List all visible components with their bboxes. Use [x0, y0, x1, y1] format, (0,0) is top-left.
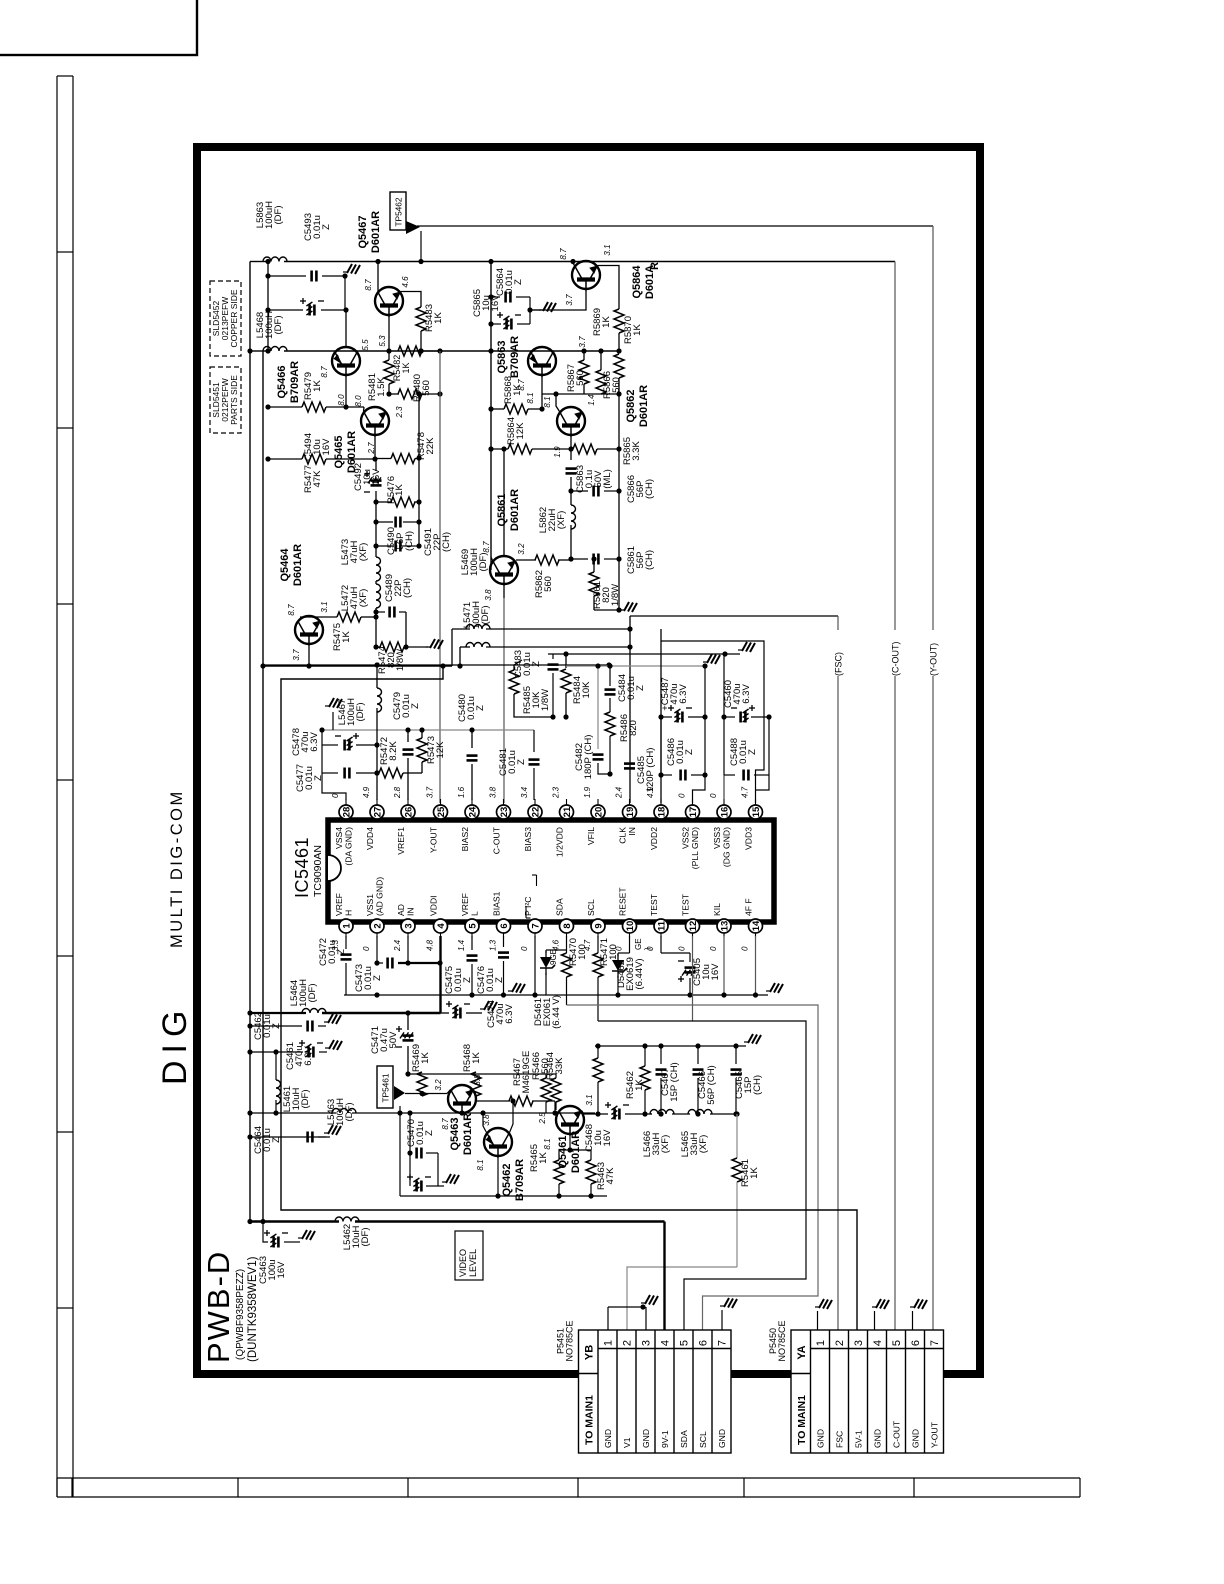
svg-text:GND: GND — [603, 1429, 613, 1448]
capacitor C5475 — [471, 936, 473, 950]
wire Q5864 emitter to R5870 — [598, 266, 620, 310]
capacitor C5472 — [345, 936, 347, 949]
wire rail2 with L5468 — [250, 350, 266, 352]
svg-text:D601AR: D601AR — [570, 1131, 582, 1173]
capacitor C5405 — [689, 953, 691, 962]
ground YB1/3 — [645, 1295, 650, 1304]
svg-text:1/2VDD: 1/2VDD — [555, 827, 565, 857]
svg-text:Z: Z — [424, 1130, 435, 1136]
svg-text:4: 4 — [436, 923, 447, 929]
svg-text:8.1: 8.1 — [526, 392, 535, 403]
resistor R5861 — [593, 559, 595, 572]
wire rail y1013b — [322, 1012, 441, 1014]
wire Q5861 collector — [503, 449, 505, 556]
wire pin14 down — [755, 936, 757, 995]
svg-text:(FSC): (FSC) — [834, 652, 844, 676]
svg-text:TP5462: TP5462 — [394, 197, 404, 226]
inductor L5467 — [376, 665, 378, 688]
svg-text:18: 18 — [656, 807, 667, 818]
resistor R5866 — [600, 351, 602, 370]
svg-text:L: L — [470, 911, 480, 916]
svg-text:5.3: 5.3 — [378, 335, 387, 347]
wire busC x491 — [490, 262, 492, 571]
wire rail y665 — [263, 664, 609, 666]
svg-text:50V: 50V — [388, 1031, 399, 1049]
capacitor C5483 — [552, 654, 554, 659]
svg-text:120P (CH): 120P (CH) — [645, 748, 656, 793]
svg-text:560: 560 — [543, 576, 554, 592]
svg-text:GE: GE — [634, 938, 643, 950]
svg-text:1.4: 1.4 — [457, 939, 466, 951]
wire rail 9V thick b — [355, 1220, 665, 1222]
wire YB pin stubs — [607, 1307, 609, 1330]
wire Q5467 collector — [377, 262, 379, 293]
svg-text:16V: 16V — [710, 963, 721, 981]
svg-text:5: 5 — [891, 1340, 903, 1346]
resistor R5471 — [597, 936, 599, 953]
resistor R5485 — [513, 665, 515, 670]
capacitor C5494 — [268, 309, 303, 311]
svg-text:560: 560 — [421, 380, 432, 396]
svg-text:24: 24 — [467, 806, 478, 817]
svg-text:(C-OUT): (C-OUT) — [891, 642, 901, 677]
wire Y-OUT inner line — [439, 351, 441, 803]
wire C5486/87 loop — [660, 717, 662, 775]
capacitor C5474 — [441, 1012, 450, 1014]
svg-text:C-OUT: C-OUT — [892, 1420, 902, 1448]
svg-text:1K: 1K — [471, 1052, 482, 1064]
svg-text:4.6: 4.6 — [401, 276, 410, 288]
svg-text:7: 7 — [717, 1340, 729, 1346]
wire node 8.0 — [346, 406, 364, 408]
capacitor C5486 — [661, 774, 672, 776]
svg-text:8.7: 8.7 — [482, 541, 491, 553]
svg-text:SDA: SDA — [679, 1430, 689, 1448]
ground C5865 — [543, 302, 548, 311]
svg-text:560: 560 — [540, 1058, 551, 1074]
svg-text:8.7: 8.7 — [364, 279, 373, 291]
svg-text:1K: 1K — [601, 316, 612, 328]
resistor R5486 — [605, 712, 615, 736]
inductor L5468 — [263, 347, 287, 352]
svg-text:(ML): (ML) — [602, 469, 613, 489]
svg-text:PWB-D: PWB-D — [201, 1250, 236, 1363]
svg-text:VDD3: VDD3 — [744, 827, 754, 850]
svg-text:(DF): (DF) — [273, 316, 284, 335]
wire CLK riser — [629, 616, 631, 803]
ground at C5493 — [347, 264, 352, 273]
capacitor C5481 — [533, 730, 535, 752]
wire V1 to YB2 — [627, 1267, 737, 1330]
dashed box SLD5451 PARTS SIDE — [210, 367, 241, 433]
ground C5463 — [302, 1230, 307, 1239]
svg-text:1K: 1K — [512, 384, 523, 396]
svg-text:(XF): (XF) — [698, 1135, 709, 1153]
net label (C-OUT) — [889, 630, 901, 676]
svg-text:VSS2: VSS2 — [681, 827, 691, 849]
svg-text:1K: 1K — [749, 1167, 760, 1179]
wire C5864/C5865 join gnd — [529, 297, 531, 324]
svg-text:Z: Z — [747, 749, 758, 755]
capacitor C5479 — [407, 730, 409, 742]
svg-text:4.9: 4.9 — [362, 786, 371, 798]
svg-text:0: 0 — [362, 946, 371, 951]
resistor R5869 — [614, 354, 624, 378]
capacitor C5489 — [376, 611, 385, 613]
svg-text:GND: GND — [873, 1429, 883, 1448]
capacitor C5470 — [410, 1152, 412, 1154]
svg-text:(CH): (CH) — [441, 532, 452, 552]
svg-text:IN: IN — [406, 907, 416, 916]
capacitor C5480 — [471, 730, 473, 748]
svg-text:Z: Z — [336, 949, 347, 955]
svg-text:SCL: SCL — [698, 1431, 708, 1448]
svg-text:C-OUT: C-OUT — [492, 826, 502, 854]
svg-text:Z: Z — [462, 977, 473, 983]
svg-text:(XF): (XF) — [660, 1135, 671, 1153]
ground rail995 mid — [512, 983, 517, 992]
capacitor C5473 — [377, 962, 383, 964]
wire top rail with L5863 — [250, 261, 266, 263]
svg-text:VREF1: VREF1 — [396, 827, 406, 855]
svg-text:GND: GND — [717, 1429, 727, 1448]
svg-text:(DA GND): (DA GND) — [344, 827, 354, 866]
resistor R5867 — [583, 351, 585, 360]
wire Q5862 collector — [556, 394, 560, 412]
wire Q5464 collector R5475 — [300, 616, 337, 618]
wire Q5467 emitter to R5483 — [401, 292, 422, 308]
wire Q5864 collector — [572, 262, 575, 266]
ground YB7 — [724, 1298, 729, 1307]
svg-text:28: 28 — [341, 807, 352, 818]
svg-text:0: 0 — [709, 946, 718, 951]
wire Q5465 stem — [374, 437, 376, 459]
svg-text:8.1: 8.1 — [543, 1138, 552, 1149]
svg-text:1K: 1K — [401, 362, 411, 373]
svg-text:(XF): (XF) — [358, 543, 369, 561]
svg-text:VSS3: VSS3 — [712, 827, 722, 849]
resistor R5469 — [408, 1073, 556, 1075]
left margin strip with fold marks — [56, 76, 58, 1497]
svg-text:TC9090AN: TC9090AN — [312, 845, 324, 897]
svg-text:4.7: 4.7 — [741, 786, 750, 798]
svg-text:(DF): (DF) — [480, 606, 491, 625]
svg-text:Z: Z — [684, 749, 695, 755]
svg-text:VDDI: VDDI — [429, 895, 439, 916]
svg-text:16V: 16V — [371, 468, 382, 486]
ground after R5474 — [430, 639, 435, 648]
svg-text:14: 14 — [751, 920, 762, 931]
svg-text:1: 1 — [341, 923, 352, 929]
capacitor C5462 — [250, 1025, 302, 1027]
svg-text:6.3V: 6.3V — [303, 1046, 314, 1066]
svg-text:8.2K: 8.2K — [388, 741, 399, 761]
wire rail y1013 thick — [250, 1012, 306, 1014]
svg-text:1.4: 1.4 — [587, 394, 596, 406]
svg-text:NO785CE: NO785CE — [565, 1320, 575, 1361]
svg-text:2.4: 2.4 — [615, 786, 624, 799]
wire row y394 — [542, 393, 619, 395]
node rail2-busA — [247, 348, 252, 353]
wire left bus A — [249, 262, 251, 1222]
svg-text:19: 19 — [625, 807, 636, 818]
svg-text:D601AR: D601AR — [292, 544, 304, 586]
svg-text:(CH): (CH) — [644, 550, 655, 570]
svg-text:(CH): (CH) — [404, 531, 415, 551]
resistor R5865 — [573, 444, 597, 454]
capacitor C5491 — [376, 545, 393, 547]
wire Q5464 stem — [308, 646, 310, 666]
svg-text:180P (CH): 180P (CH) — [583, 735, 594, 780]
svg-text:3.8: 3.8 — [484, 589, 493, 601]
capacitor C5467 — [660, 1046, 662, 1064]
svg-text:(XF): (XF) — [358, 589, 369, 607]
svg-text:8.1: 8.1 — [543, 396, 552, 407]
svg-text:2.5: 2.5 — [538, 1112, 547, 1125]
svg-text:4: 4 — [872, 1340, 884, 1346]
svg-text:2.8: 2.8 — [393, 786, 402, 799]
svg-text:3.7: 3.7 — [426, 786, 435, 798]
svg-text:IC5461: IC5461 — [292, 837, 312, 898]
wire rail 9V thick — [250, 1220, 339, 1222]
svg-text:16V: 16V — [602, 1129, 613, 1147]
svg-text:(6.44V): (6.44V) — [634, 958, 645, 989]
ground C5462 — [328, 1014, 333, 1023]
svg-text:1.5K: 1.5K — [376, 377, 387, 397]
transistor Q5861 — [490, 556, 518, 586]
svg-text:1K: 1K — [433, 312, 444, 324]
svg-text:47K: 47K — [312, 470, 323, 488]
resistor R5467 — [476, 1100, 510, 1102]
svg-text:3.1: 3.1 — [603, 244, 612, 255]
svg-text:VREF: VREF — [460, 893, 470, 916]
svg-text:Q5467: Q5467 — [357, 215, 369, 248]
svg-text:YB: YB — [584, 1345, 596, 1360]
label P I2C box — [525, 906, 527, 918]
wire SCL staircase — [598, 1021, 806, 1330]
svg-text:7: 7 — [929, 1340, 941, 1346]
svg-text:D601AR: D601AR — [638, 385, 650, 427]
wire rail y995 — [344, 994, 768, 996]
capacitor C5465 — [735, 1046, 737, 1064]
capacitor C5466 — [697, 1046, 699, 1064]
capacitor C5492 — [375, 459, 377, 471]
svg-text:TO MAIN1: TO MAIN1 — [584, 1395, 596, 1445]
svg-text:1/8W: 1/8W — [395, 649, 406, 671]
capacitor C5464 — [280, 1136, 302, 1138]
svg-text:8.0: 8.0 — [354, 395, 363, 407]
svg-text:V1: V1 — [622, 1437, 632, 1448]
page corner box (top-left) — [0, 0, 197, 55]
wire Q5462 collector — [483, 1113, 487, 1133]
capacitor C5461 — [250, 1051, 303, 1053]
svg-text:17: 17 — [688, 807, 699, 818]
svg-text:(XF): (XF) — [556, 511, 567, 529]
svg-text:22: 22 — [530, 807, 541, 818]
capacitor C5866 — [571, 490, 588, 492]
svg-text:2.3: 2.3 — [395, 406, 404, 419]
svg-text:3: 3 — [403, 923, 414, 928]
wire pin7 down — [534, 936, 536, 995]
resistor R5477 — [268, 458, 302, 460]
ground C5461 — [329, 1040, 334, 1049]
svg-text:Q5463: Q5463 — [449, 1117, 461, 1150]
svg-text:560: 560 — [611, 377, 622, 393]
svg-text:0: 0 — [741, 946, 750, 951]
capacitor C5863 — [570, 449, 572, 460]
resistor R5461 — [736, 1114, 738, 1158]
capacitor C5864 — [491, 296, 500, 298]
svg-text:Z: Z — [321, 224, 332, 230]
resistor R5483 — [416, 307, 426, 331]
svg-text:3.1: 3.1 — [320, 601, 329, 612]
svg-text:5.5: 5.5 — [361, 339, 370, 351]
svg-text:(DF): (DF) — [300, 1090, 311, 1109]
resistor R5465 — [558, 1150, 560, 1160]
wire R5478 top — [418, 394, 420, 546]
svg-text:Q5464: Q5464 — [279, 548, 291, 582]
svg-text:Q5861: Q5861 — [496, 493, 508, 526]
wire Q5463 left leg — [405, 1093, 447, 1095]
svg-text:560: 560 — [575, 370, 586, 386]
inductor L5473 — [376, 557, 381, 581]
svg-text:8.0: 8.0 — [337, 394, 346, 406]
net label (Y-OUT) — [927, 630, 939, 676]
IC bottom pins 1-14 — [339, 919, 353, 933]
svg-text:Y-OUT: Y-OUT — [429, 826, 439, 853]
svg-text:1K: 1K — [538, 1152, 549, 1164]
svg-text:1.6: 1.6 — [457, 786, 466, 798]
svg-text:3.7: 3.7 — [578, 336, 587, 348]
svg-text:Z: Z — [410, 703, 421, 709]
svg-text:16V: 16V — [490, 294, 501, 312]
svg-text:(DF): (DF) — [344, 1103, 355, 1122]
capacitor C5460 — [724, 716, 735, 718]
svg-text:B709AR: B709AR — [289, 361, 301, 403]
boxed label VIDEO LEVEL — [455, 1231, 483, 1280]
svg-text:(6.44 V): (6.44 V) — [551, 995, 562, 1029]
svg-text:7: 7 — [530, 923, 541, 928]
connector P5451 YB — [579, 1330, 732, 1453]
wire VDD3 feed — [661, 641, 764, 803]
resistor R5862 — [516, 559, 536, 561]
svg-text:8.1: 8.1 — [476, 1159, 485, 1170]
ground rail995 end — [770, 983, 775, 992]
wire pin12 down — [692, 936, 694, 1021]
inductor L5469 — [466, 625, 490, 629]
svg-text:23: 23 — [499, 807, 510, 818]
wire pin4 thick down — [439, 936, 441, 1013]
svg-text:VSS4: VSS4 — [334, 827, 344, 849]
wire C5488/60 loop — [723, 654, 725, 775]
wire pin18 up — [660, 629, 662, 641]
capacitor C5477 — [322, 772, 338, 774]
inductor L5862 — [571, 505, 576, 529]
ground C5464 — [328, 1125, 333, 1134]
inductor L5463 — [332, 1109, 356, 1114]
wire YA pin stubs — [817, 1311, 819, 1330]
svg-text:3.8: 3.8 — [473, 1074, 482, 1086]
svg-text:1.9: 1.9 — [583, 786, 592, 798]
svg-text:H: H — [344, 910, 354, 916]
wire rail y1046 — [595, 1045, 746, 1047]
ground C5470 — [446, 1174, 451, 1183]
svg-text:Q5862: Q5862 — [625, 389, 637, 422]
resistor R5480 — [389, 393, 399, 395]
svg-text:10: 10 — [625, 921, 636, 932]
svg-text:Q5465: Q5465 — [333, 435, 345, 468]
svg-text:0: 0 — [678, 946, 687, 951]
svg-text:47K: 47K — [605, 1167, 616, 1185]
svg-text:VREF: VREF — [334, 893, 344, 916]
resistor R5482 — [393, 350, 399, 352]
svg-text:4.8: 4.8 — [426, 939, 435, 951]
svg-text:Z: Z — [635, 685, 646, 691]
capacitor C5468 — [584, 1113, 608, 1115]
capacitor C5487 — [661, 716, 672, 718]
resistor R5478 — [375, 458, 391, 460]
bottom scale ruler — [57, 1477, 1080, 1479]
svg-text:(CH): (CH) — [402, 578, 413, 598]
inductor L5471 — [466, 643, 490, 647]
svg-text:1.9: 1.9 — [553, 446, 562, 458]
wire Q5466 collector to C5494 — [345, 310, 347, 347]
svg-text:TEST: TEST — [649, 893, 659, 916]
svg-text:VDD2: VDD2 — [649, 827, 659, 850]
svg-text:VSS1: VSS1 — [365, 894, 375, 916]
wire L5471 to CLK — [486, 646, 630, 648]
svg-text:0: 0 — [520, 946, 529, 951]
testpoint TP5461 — [399, 1106, 401, 1196]
svg-text:2: 2 — [622, 1340, 634, 1346]
svg-text:15P (CH): 15P (CH) — [669, 1062, 680, 1101]
wire busA-C5493 branch — [267, 262, 269, 352]
inductor L5472 — [376, 584, 381, 608]
wire L5469 to FSC — [486, 628, 630, 630]
resistor R5868 — [491, 408, 504, 410]
capacitor C5471 — [407, 1013, 409, 1030]
transistor Q5864 — [572, 261, 600, 291]
transistor Q5466 — [332, 347, 360, 377]
svg-text:(PLL GND): (PLL GND) — [690, 827, 700, 869]
wire L5467 to pin27 — [376, 745, 378, 800]
svg-text:5V-1: 5V-1 — [854, 1430, 864, 1448]
svg-text:11: 11 — [656, 920, 667, 931]
svg-text:): ) — [643, 947, 652, 950]
wire SDA staircase — [567, 1005, 819, 1330]
svg-text:2: 2 — [834, 1340, 846, 1346]
wire R5483 down — [420, 331, 422, 351]
svg-text:16V: 16V — [276, 1261, 287, 1279]
ground above C5478 — [332, 712, 334, 730]
resistor R5484 — [565, 654, 567, 668]
svg-text:AD: AD — [396, 904, 406, 916]
resistor R5870 — [614, 309, 624, 333]
svg-text:GND: GND — [911, 1429, 921, 1448]
transistor Q5461 — [556, 1106, 584, 1136]
svg-text:3.7: 3.7 — [292, 649, 301, 661]
svg-text:9: 9 — [593, 923, 604, 928]
svg-text:2.3: 2.3 — [552, 786, 561, 799]
svg-text:Z: Z — [513, 279, 524, 285]
svg-text:3.3K: 3.3K — [631, 441, 642, 461]
svg-text:B709AR: B709AR — [509, 336, 521, 378]
svg-text:YA: YA — [796, 1345, 808, 1359]
wire TP5462 to Y-OUT line — [417, 225, 933, 227]
inductor L5462 — [335, 1217, 359, 1222]
ground rail1046 — [748, 1034, 753, 1043]
wire rail y654 — [548, 653, 740, 655]
